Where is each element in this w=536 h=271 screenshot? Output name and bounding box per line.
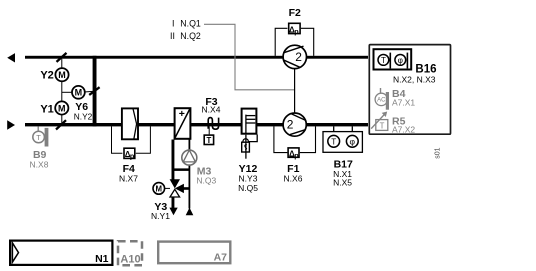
svg-text:A7: A7 <box>214 251 228 263</box>
svg-text:A7.X2: A7.X2 <box>392 125 415 135</box>
svg-text:N.X8: N.X8 <box>30 159 49 169</box>
svg-text:p: p <box>294 27 299 36</box>
svg-text:Y1: Y1 <box>40 103 53 115</box>
svg-text:N.Q3: N.Q3 <box>196 176 216 186</box>
svg-text:Y2: Y2 <box>40 70 53 82</box>
svg-text:T: T <box>380 121 385 130</box>
svg-text:φ: φ <box>350 137 356 147</box>
svg-text:p: p <box>294 151 299 160</box>
svg-text:AC: AC <box>377 98 386 104</box>
svg-text:N1: N1 <box>95 253 109 265</box>
svg-text:A7.X1: A7.X1 <box>392 98 415 108</box>
svg-text:II: II <box>170 31 175 41</box>
svg-text:2: 2 <box>287 118 294 132</box>
svg-text:I: I <box>172 19 174 29</box>
svg-text:M: M <box>58 70 66 80</box>
svg-text:T: T <box>36 133 41 142</box>
svg-text:N.X5: N.X5 <box>333 178 352 188</box>
svg-text:N.Y1: N.Y1 <box>151 211 170 221</box>
svg-text:T: T <box>207 136 212 145</box>
svg-text:T: T <box>331 137 336 146</box>
svg-text:N.Q1: N.Q1 <box>180 19 201 29</box>
svg-text:+: + <box>179 108 185 120</box>
svg-text:N.X4: N.X4 <box>202 105 221 115</box>
svg-text:2: 2 <box>295 50 302 64</box>
svg-text:M: M <box>75 88 83 98</box>
svg-text:A10: A10 <box>120 253 140 265</box>
svg-text:N.Q2: N.Q2 <box>180 31 201 41</box>
svg-text:F2: F2 <box>289 7 301 19</box>
svg-text:T: T <box>381 56 386 65</box>
svg-text:φ: φ <box>398 56 403 65</box>
svg-text:M: M <box>58 103 66 113</box>
svg-text:N.Y2: N.Y2 <box>74 112 93 122</box>
svg-text:s01: s01 <box>435 147 442 158</box>
svg-text:N.X2, N.X3: N.X2, N.X3 <box>393 75 436 85</box>
svg-text:p: p <box>130 152 135 161</box>
svg-text:N.X6: N.X6 <box>284 173 303 183</box>
svg-text:N.Q5: N.Q5 <box>238 183 258 193</box>
svg-text:N.X7: N.X7 <box>119 173 138 183</box>
svg-text:M: M <box>156 184 163 193</box>
